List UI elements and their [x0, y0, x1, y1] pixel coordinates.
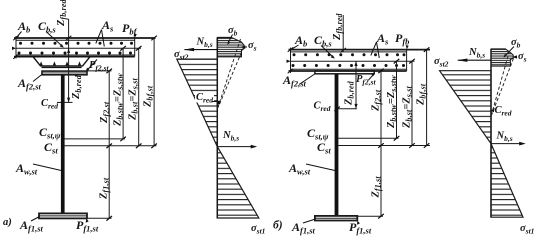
svg-text:Zfb,red: Zfb,red [56, 0, 68, 27]
left arrow at slab centroid [12, 47, 16, 50]
svg-text:Pf2,st: Pf2,st [89, 60, 109, 73]
svg-text:Zb,st=Zs,st: Zb,st=Zs,st [402, 85, 414, 129]
svg-text:Cst: Cst [44, 140, 58, 156]
dim line Z_b,stw vertical (panel b) [396, 61, 398, 138]
C_st level line (panel b) [338, 145, 430, 147]
svg-text:Nb,s: Nb,s [496, 131, 513, 144]
svg-text:Cb,s: Cb,s [314, 33, 332, 49]
dim line Z_b,red vertical (panel b) [355, 61, 357, 108]
lower steel stress triangle (panel b) [491, 144, 523, 218]
svg-text:Zb,st=Zs,st: Zb,st=Zs,st [128, 77, 140, 121]
bottom flange extension (panel b) [357, 215, 383, 217]
axis line (panel b) [490, 49, 492, 217]
svg-text:Zb,red: Zb,red [71, 74, 83, 100]
svg-text:б): б) [273, 220, 283, 232]
left arrow at slab centroid (panel b) [287, 60, 291, 63]
svg-text:Zbf,st: Zbf,st [143, 85, 155, 108]
C_red level line [64, 101, 72, 103]
svg-text:Cst: Cst [317, 140, 331, 156]
dim line Z_f2,st / Z_f1,st vertical (panel b) [380, 71, 382, 216]
svg-text:Pfb: Pfb [395, 31, 409, 47]
N_b,s arrow top (panel b) [458, 59, 491, 61]
sigma_b hatched block (panel b) [491, 49, 513, 66]
bottom flange plate A_f1,st [39, 213, 87, 218]
upper steel stress triangle (panel b) [440, 71, 491, 144]
svg-text:Zf1,st: Zf1,st [99, 177, 111, 200]
svg-text:Nb,s: Nb,s [196, 37, 213, 50]
svg-text:Zb,stw=Zs,stw: Zb,stw=Zs,stw [386, 75, 398, 129]
svg-text:σst1: σst1 [520, 223, 534, 236]
N_b,s arrow (top, left) [185, 49, 218, 51]
dashed construction lines to C_red [218, 39, 244, 108]
dim line Z_bf,red / Z_b,red vertical [68, 19, 70, 103]
rebar dots row 2 [18, 52, 133, 55]
upper steel stress triangle [177, 59, 218, 147]
flange top extension line [87, 70, 112, 72]
dim line Z_f2,st / Z_f1,st vertical [108, 71, 110, 218]
web A_w,st [61, 75, 65, 214]
C_red level line (panel b) [338, 108, 357, 110]
svg-text:Af2,st: Af2,st [17, 76, 42, 92]
web (panel b) [335, 74, 339, 216]
dashed construction lines (panel b) [491, 51, 513, 116]
C_st,psi level line (panel b) [338, 137, 398, 139]
slab centroid mid line [16, 47, 141, 49]
sigma_b hatched block [217, 38, 244, 57]
svg-text:σb: σb [228, 25, 238, 38]
flange top extension (panel b) [374, 70, 383, 72]
dim line Z_b,stw vertical [122, 48, 124, 139]
concrete slab A_b outline [14, 36, 156, 59]
svg-text:Af2,st: Af2,st [282, 73, 307, 89]
bottom flange plate (panel b) [315, 216, 357, 221]
dim line Z_b,st vertical [138, 48, 140, 146]
slab centroid mid line (panel b) [291, 60, 415, 62]
svg-text:а): а) [3, 217, 12, 228]
svg-text:Zb,stw=Zs,stw: Zb,stw=Zs,stw [113, 73, 125, 127]
concrete slab outline (panel b) [289, 48, 431, 73]
svg-text:Zf2,st: Zf2,st [99, 101, 111, 124]
C_st,psi level line [64, 138, 125, 140]
svg-text:Aw,st: Aw,st [288, 161, 311, 177]
svg-text:Zb,red: Zb,red [344, 80, 356, 106]
svg-text:Nb,s: Nb,s [222, 130, 239, 143]
svg-text:Zf1,st: Zf1,st [371, 176, 383, 199]
bottom flange extension line [87, 217, 112, 219]
svg-text:Nb,s: Nb,s [468, 47, 485, 60]
slab left edge corner ticks [13, 36, 19, 59]
svg-text:Cst,ψ: Cst,ψ [39, 125, 61, 141]
svg-text:σst1: σst1 [251, 223, 265, 236]
svg-text:As: As [376, 31, 389, 47]
svg-text:σs: σs [248, 40, 257, 53]
svg-text:σs: σs [518, 51, 527, 64]
lower steel stress triangle [217, 147, 258, 218]
dim line Z_bf,st vertical [153, 38, 155, 146]
rebar dots row 1 [19, 42, 133, 45]
svg-text:Af1,st: Af1,st [291, 220, 316, 236]
svg-text:Pf1,st: Pf1,st [349, 220, 372, 236]
svg-text:Cred: Cred [314, 101, 331, 114]
dim line Z_b,st vertical (panel b) [411, 61, 413, 145]
dimension ticks panel b [378, 47, 429, 218]
svg-text:Zbf,st: Zbf,st [416, 83, 428, 106]
C_red label and dot (diagram a) [195, 92, 214, 103]
svg-text:Ab: Ab [17, 19, 30, 35]
haunch (vut) below slab [33, 57, 90, 68]
axis line [216, 38, 218, 219]
dim line Z_bf,st vertical (panel b) [426, 50, 428, 146]
top flange plate A_f2,st [42, 71, 87, 75]
svg-text:Zf2,st: Zf2,st [371, 89, 383, 112]
top flange plate (panel b) [315, 71, 374, 74]
svg-text:σst2: σst2 [434, 56, 449, 69]
C_st level line [64, 145, 156, 147]
shear studs (triangles) [40, 61, 82, 65]
dimension ticks panel a [106, 36, 156, 221]
dim line Z_fb,red vertical (panel b) [342, 15, 344, 52]
svg-text:Cred: Cred [41, 98, 58, 111]
svg-text:Zfb,red: Zfb,red [332, 12, 344, 41]
svg-text:Cred: Cred [495, 105, 512, 118]
rebar dots row 1 (panel b) [293, 53, 406, 56]
svg-text:Aw,st: Aw,st [15, 161, 38, 177]
slab left edge corner ticks (panel b) [288, 47, 294, 73]
rebar dots row 2 (panel b) [292, 64, 406, 67]
svg-text:As: As [101, 18, 114, 34]
